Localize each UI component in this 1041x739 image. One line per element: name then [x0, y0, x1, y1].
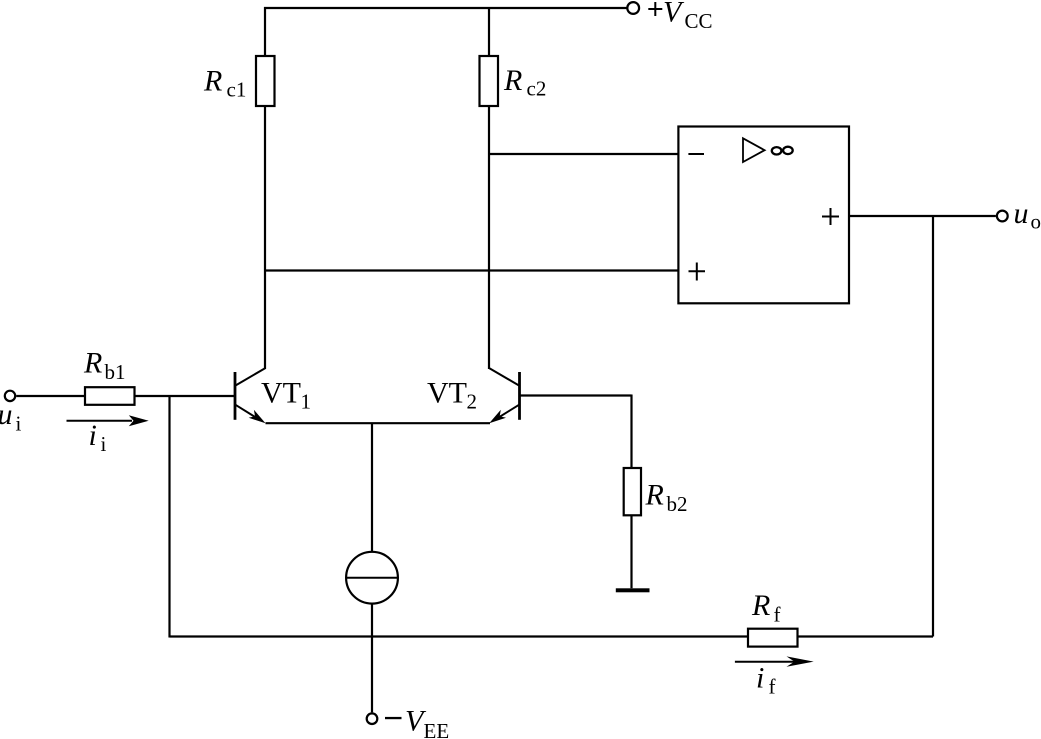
op-amp output plus sign [822, 208, 839, 225]
svg-text:f: f [769, 675, 776, 699]
wire top VCC rail [264, 7, 627, 9]
svg-text:R: R [503, 64, 522, 97]
svg-text:R: R [751, 589, 770, 622]
svg-text:EE: EE [424, 719, 450, 739]
wire Rc1 branch top [264, 7, 266, 56]
wire Rc1 to VT1 collector node [264, 106, 266, 369]
terminal +VCC [627, 2, 639, 14]
svg-text:2: 2 [467, 390, 478, 414]
svg-text:u: u [0, 398, 13, 431]
op-amp gain triangle [743, 138, 765, 162]
op-amp inverting input minus sign [688, 153, 704, 155]
svg-text:R: R [83, 347, 102, 380]
svg-text:R: R [203, 64, 222, 97]
resistor Rf [748, 629, 798, 647]
op-amp infinity symbol [772, 147, 782, 154]
svg-text:c2: c2 [527, 77, 547, 101]
transistor VT2 [489, 368, 520, 423]
terminal -VEE [367, 713, 378, 724]
terminal u_o [997, 211, 1008, 222]
arrow i_f [735, 656, 814, 666]
svg-text:V: V [663, 0, 685, 29]
svg-text:i: i [101, 432, 107, 456]
current source I [346, 552, 398, 604]
svg-text:R: R [645, 479, 664, 512]
resistor Rb2 [624, 468, 641, 515]
arrow i_i [67, 415, 149, 426]
svg-text:o: o [1031, 210, 1041, 234]
label +VCC [648, 0, 712, 33]
wire Rb2 to ground [630, 515, 632, 588]
label -VEE [385, 705, 449, 739]
svg-text:VT: VT [427, 377, 467, 410]
svg-text:1: 1 [301, 390, 312, 414]
resistor Rc2 [480, 56, 499, 106]
ground [616, 588, 650, 592]
svg-text:i: i [89, 419, 97, 452]
svg-text:f: f [774, 603, 781, 627]
wire VT2 base run [520, 394, 632, 396]
resistor Rb1 [85, 387, 135, 405]
wire VT2 base to Rb2 [630, 395, 632, 469]
wire feedback vertical from output [932, 216, 934, 637]
svg-text:b2: b2 [667, 492, 688, 516]
wire input from terminal [16, 395, 234, 397]
svg-text:i: i [756, 661, 764, 694]
wire tail current source top [371, 423, 373, 552]
svg-text:CC: CC [685, 9, 713, 33]
terminal u_i [5, 391, 15, 401]
svg-text:b1: b1 [105, 360, 126, 384]
resistor Rc1 [256, 56, 275, 106]
svg-text:c1: c1 [227, 78, 247, 102]
wire input node vertical [168, 396, 170, 638]
wire Rc2 to VT2 collector node [488, 106, 490, 369]
wire Rc2 branch top [488, 7, 490, 56]
svg-text:u: u [1014, 197, 1029, 230]
wire to op-amp non-inverting input [265, 269, 678, 271]
wire to op-amp inverting input [488, 153, 678, 155]
op-amp non-inverting input plus sign [689, 263, 706, 281]
wire op-amp output [849, 215, 996, 217]
svg-text:i: i [16, 412, 22, 436]
wire emitter rail [266, 422, 491, 424]
wire bottom feedback run [170, 635, 934, 637]
transistor VT1 [235, 368, 266, 423]
op-amp U1 box [678, 127, 849, 304]
wire current source to VEE terminal [371, 604, 373, 713]
svg-text:VT: VT [261, 377, 301, 410]
